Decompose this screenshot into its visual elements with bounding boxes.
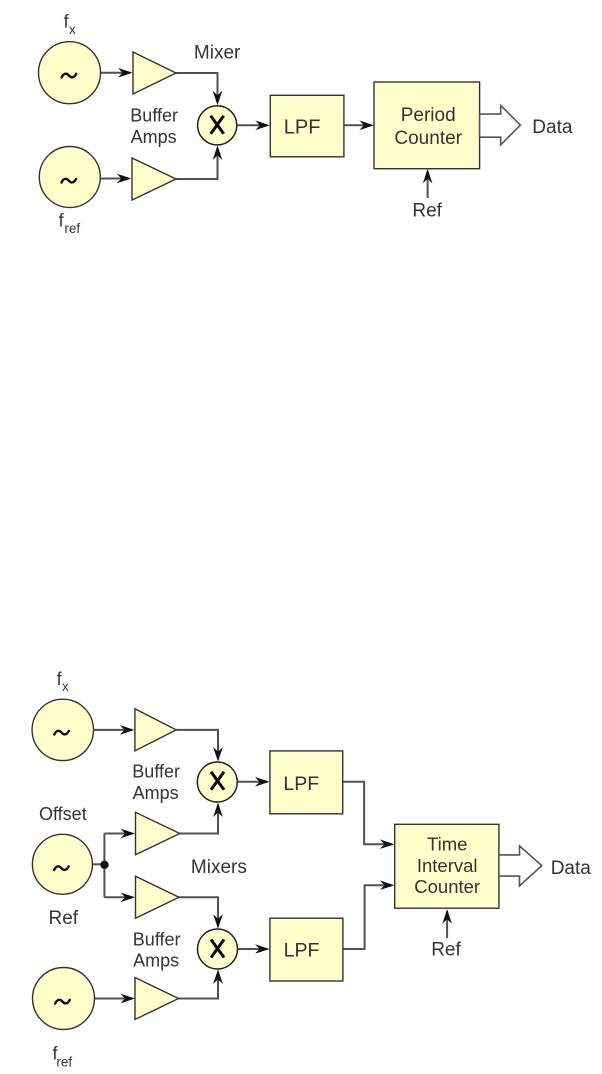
svg-text:Ref: Ref xyxy=(49,908,79,929)
svg-text:x: x xyxy=(69,22,76,37)
svg-text:Counter: Counter xyxy=(394,128,462,149)
svg-text:Mixers: Mixers xyxy=(191,857,247,878)
svg-text:Interval: Interval xyxy=(417,855,478,876)
svg-text:Amps: Amps xyxy=(131,127,177,147)
svg-text:Counter: Counter xyxy=(414,876,480,897)
svg-text:ref: ref xyxy=(64,221,80,236)
svg-text:x: x xyxy=(62,679,69,694)
svg-text:Data: Data xyxy=(551,858,592,879)
svg-text:Buffer: Buffer xyxy=(133,929,181,949)
svg-text:LPF: LPF xyxy=(284,939,320,961)
svg-text:Time: Time xyxy=(427,833,467,854)
svg-text:Data: Data xyxy=(532,117,573,138)
svg-text:LPF: LPF xyxy=(284,116,321,138)
svg-text:Ref: Ref xyxy=(412,201,442,222)
svg-text:Buffer: Buffer xyxy=(132,761,180,781)
svg-text:Buffer: Buffer xyxy=(130,105,178,125)
svg-text:LPF: LPF xyxy=(283,773,319,795)
svg-text:Offset: Offset xyxy=(39,804,87,824)
svg-text:Amps: Amps xyxy=(133,783,179,803)
svg-text:Ref: Ref xyxy=(431,939,461,960)
svg-text:Period: Period xyxy=(401,105,456,126)
svg-text:Amps: Amps xyxy=(133,950,179,970)
svg-text:ref: ref xyxy=(56,1054,72,1069)
svg-text:Mixer: Mixer xyxy=(194,42,241,63)
